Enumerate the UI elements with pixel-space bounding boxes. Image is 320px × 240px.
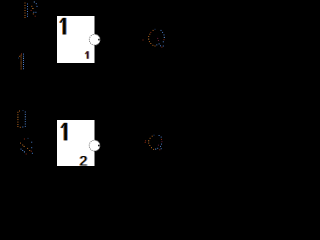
input label 0 [17,110,25,128]
inverter U1 output bubble [89,34,100,45]
inverter U2 body [57,120,95,166]
inverter U1 body [57,16,95,63]
output label Q node Q2 [145,135,163,151]
inverter U1 index 1 [85,51,90,59]
input label R [25,2,38,19]
inverter U2 output bubble [89,140,100,151]
inverter U2 index 2 [79,154,89,169]
inverter U2 function label 1 [60,123,68,141]
input label 1 [18,53,24,69]
svg-text:2: 2 [80,154,88,169]
output label Q node Q1 [143,29,165,48]
input label S [20,138,33,155]
inverter U1 function label 1 [59,18,67,35]
